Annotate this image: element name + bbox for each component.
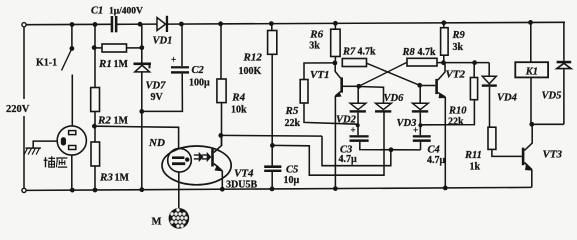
transistor VT4 emitter (214, 164, 223, 171)
svg-text:R2: R2 (97, 115, 111, 127)
node trigger (389, 147, 394, 152)
resistor R3 (91, 142, 100, 166)
wire column x95 upper (94, 24, 96, 88)
wire top rail C (168, 22, 566, 24)
switch K1-1 blade (62, 49, 72, 71)
svg-text:100μ: 100μ (189, 78, 210, 89)
wire X slant R8-VT1base (359, 62, 407, 86)
wire K1 top (530, 22, 532, 62)
wire R9 bottom (443, 55, 445, 63)
node VD2-C3 (356, 123, 360, 127)
wire right edge down (563, 22, 565, 61)
svg-text:1k: 1k (470, 162, 481, 173)
wire R6 bottom (334, 57, 336, 63)
wire R2 bottom (94, 112, 96, 143)
node R3 rail (93, 188, 98, 193)
node top x95 (93, 22, 98, 27)
wire C5 bottom (271, 172, 273, 189)
wire R10 stub top (473, 63, 475, 78)
wire R10 bottom (421, 100, 475, 125)
node top x530 (528, 20, 533, 25)
svg-text:R6: R6 (309, 28, 323, 40)
svg-text:VD1: VD1 (153, 36, 173, 47)
wire switch stub (71, 25, 73, 49)
diode VD3 (413, 103, 429, 109)
capacitor C5 (264, 165, 281, 168)
transistor VT4 collector (214, 135, 222, 152)
diode VD2 (350, 103, 366, 109)
resistor R9 (441, 28, 449, 56)
svg-text:K1-1: K1-1 (36, 58, 57, 69)
node C5 rail (270, 187, 275, 192)
node top x335 (333, 21, 338, 26)
neon lamp bulb (168, 148, 192, 172)
transistor VT1 emitter (335, 92, 340, 96)
transistor VT1 base wire (343, 85, 359, 87)
wire R5 top (304, 63, 335, 80)
svg-text:+: + (351, 125, 356, 135)
wire top rail A (26, 23, 111, 25)
svg-text:VT4: VT4 (234, 168, 254, 180)
capacitor C2 (171, 66, 189, 68)
svg-text:1M: 1M (115, 173, 130, 184)
svg-text:R9: R9 (452, 30, 466, 41)
microphone M (169, 208, 190, 229)
node VD7 rail (139, 187, 144, 192)
wire VT1 emitter down (334, 96, 336, 189)
neon electrode top (172, 156, 184, 159)
capacitor C1 (111, 16, 114, 32)
resistor R5 (300, 80, 308, 104)
wire VD2 stub (357, 86, 359, 103)
svg-text:ND: ND (148, 137, 165, 149)
node VT4 rail (220, 187, 225, 192)
wire R12 bottom (271, 54, 273, 165)
svg-text:M: M (152, 217, 162, 228)
node VT2 base (417, 83, 422, 88)
wire VD3 stub (419, 85, 421, 103)
node C5 top (270, 143, 275, 148)
wire VD7 column upper (141, 24, 143, 62)
capacitor C3 (350, 135, 369, 137)
wire VD4 stub (488, 63, 490, 77)
transistor VT3 arrow (525, 163, 532, 170)
svg-text:VD6: VD6 (384, 93, 405, 104)
socket outline (57, 126, 86, 155)
node top x220 (218, 21, 223, 26)
svg-text:R5: R5 (285, 105, 299, 117)
svg-text:K1: K1 (525, 67, 538, 78)
wire socket to rail (71, 155, 73, 190)
resistor R12 (268, 31, 277, 55)
socket slot left (61, 137, 66, 145)
svg-text:1M: 1M (114, 59, 129, 70)
node top x443 (441, 20, 446, 25)
svg-text:1M: 1M (114, 116, 129, 127)
wire netA horizontal (221, 134, 322, 137)
svg-text:220V: 220V (6, 104, 30, 115)
node top x271 (269, 21, 274, 26)
resistor R6 (331, 29, 340, 56)
wire top rail B (117, 23, 157, 25)
node R10 top (472, 60, 477, 65)
wire C2 bottom (142, 74, 183, 112)
svg-text:4.7μ: 4.7μ (339, 154, 358, 165)
resistor R11 (488, 127, 496, 149)
wire R5 to VD2-C3 junction (304, 103, 358, 124)
diode VD5 bar (557, 61, 572, 64)
resistor R1 (102, 44, 127, 52)
wire netA riser (322, 136, 391, 166)
node R2 bottom (92, 124, 97, 129)
svg-text:R1: R1 (98, 58, 112, 70)
wire VD7 column lower (141, 72, 143, 190)
ground (26, 147, 41, 149)
svg-text:10μ: 10μ (284, 175, 300, 186)
wire left vertical upper (23, 27, 25, 99)
transistor VT2 emitter (438, 93, 445, 98)
svg-text:C4: C4 (428, 145, 440, 156)
wire C2 stub top (181, 24, 183, 66)
svg-text:VD2: VD2 (336, 115, 357, 126)
wire VD4-R11 (489, 87, 491, 127)
svg-text:22k: 22k (448, 117, 464, 128)
capacitor C4 (413, 135, 431, 137)
wire C3 bottom (360, 142, 421, 150)
svg-text:22k: 22k (285, 118, 301, 129)
transistor VT2 base wire (420, 85, 436, 87)
wire VD3-C4 (419, 113, 421, 136)
wire collector line right (437, 62, 489, 64)
svg-text:VD4: VD4 (497, 93, 517, 104)
resistor R7 (342, 59, 366, 67)
svg-text:R12: R12 (243, 52, 263, 64)
resistor R4 (217, 79, 226, 103)
node K1 bottom (529, 122, 534, 127)
svg-text:3DU5B: 3DU5B (226, 180, 257, 191)
wire R4 top (220, 24, 222, 79)
svg-text:C5: C5 (286, 165, 298, 176)
svg-text:R8: R8 (402, 47, 416, 58)
node switch top (70, 46, 75, 51)
wire left vertical lower (23, 116, 25, 188)
node R1 right (139, 45, 144, 50)
wire R12 top (271, 24, 273, 31)
svg-text:R4: R4 (231, 91, 245, 103)
resistor R10 (470, 78, 477, 100)
svg-text:3k: 3k (309, 40, 320, 51)
node R1 left (92, 45, 97, 50)
transistor VT1 bar (340, 77, 343, 92)
wire R2-neon (95, 126, 179, 148)
light arrows (194, 154, 199, 156)
node top x140 (138, 22, 143, 27)
wire socket-ground (33, 141, 57, 148)
resistor R2 (91, 88, 100, 112)
svg-text:VT2: VT2 (446, 69, 466, 81)
node bottom x72 (70, 188, 75, 193)
wire R9 top (443, 23, 445, 28)
transistor VT2 arrow (439, 93, 446, 98)
wire netB (272, 112, 384, 175)
node VT1 base (356, 84, 361, 89)
node VD3-C4 (418, 123, 422, 127)
svg-text:C2: C2 (192, 65, 205, 76)
svg-text:VD5: VD5 (542, 91, 562, 102)
svg-text:R3: R3 (99, 172, 113, 184)
wire VD2-C3 (357, 113, 359, 136)
resistor R8 (407, 58, 437, 66)
node VT1 collector (333, 61, 338, 66)
terminal bottom-left (22, 188, 26, 192)
transistor VT2 collector (438, 63, 445, 80)
svg-text:VT3: VT3 (543, 149, 563, 161)
neon dot (185, 157, 189, 161)
svg-text:3k: 3k (453, 42, 464, 53)
svg-text:R10: R10 (448, 106, 467, 117)
svg-text:4.7k: 4.7k (358, 47, 377, 58)
terminal top-left (22, 23, 26, 27)
relay K1 (515, 62, 548, 77)
wire bottom rail (26, 187, 532, 190)
diode VD5 (557, 63, 571, 68)
wire C4 bottom (420, 142, 422, 150)
svg-text:R11: R11 (464, 150, 482, 161)
transistor VT1 arrow (335, 92, 342, 97)
svg-text:1μ/400V: 1μ/400V (109, 7, 143, 17)
node VD7-C2 (139, 109, 144, 114)
transistor VT3 bar (522, 148, 525, 166)
wire K1 bottom (530, 77, 532, 124)
wire X slant R7-VT2base (367, 63, 420, 85)
node top x181 (179, 22, 184, 27)
svg-text:+: + (171, 55, 176, 65)
transistor VT1 collector (335, 63, 341, 78)
diode VD4 (482, 76, 496, 84)
label socket (插座) (45, 157, 47, 167)
transistor VT2 bar (435, 79, 438, 94)
wire VT4 emitter down (221, 171, 223, 189)
neon electrode bottom (172, 162, 185, 165)
wire R6 top (334, 23, 336, 29)
svg-text:VT1: VT1 (310, 69, 330, 81)
svg-text:VD7: VD7 (146, 81, 167, 92)
node VT1 rail (333, 186, 338, 191)
wire VT2 emitter down (444, 97, 446, 188)
svg-text:+: + (413, 125, 418, 135)
node VT2 collector (441, 60, 446, 65)
wire VD5 down (563, 69, 565, 125)
svg-text:9V: 9V (151, 92, 164, 103)
transistor VT3 collector (524, 124, 532, 150)
wire base ext to VD6 (359, 87, 384, 104)
transistor VT3 emitter (524, 163, 531, 170)
svg-text:R7: R7 (342, 47, 356, 58)
optocoupler ND outline (162, 146, 231, 185)
svg-text:10k: 10k (231, 105, 247, 116)
node R4 bottom (218, 133, 223, 138)
wire R4 bottom (221, 103, 223, 146)
wire R3 bottom (94, 166, 96, 190)
wire switch to socket (71, 75, 73, 127)
transistor VT4 bar (211, 149, 214, 167)
svg-text:4.7μ: 4.7μ (427, 155, 446, 166)
node VT2 rail (443, 186, 448, 191)
transistor VT4 arrow (215, 165, 223, 171)
socket slot bottom (69, 146, 76, 150)
wire VD5 to K1 bottom (532, 123, 564, 125)
svg-text:100K: 100K (239, 66, 262, 77)
svg-text:C1: C1 (91, 6, 103, 17)
zener VD7 (134, 63, 152, 66)
wire R11 bottom (492, 149, 522, 156)
diode VD6 (376, 103, 392, 109)
svg-text:4.7k: 4.7k (418, 47, 437, 58)
socket slot top (69, 131, 76, 135)
wire neon to M (178, 172, 180, 208)
diode VD1 (157, 18, 166, 31)
wire VT3 emitter down (531, 170, 533, 188)
node top x72 (70, 22, 75, 27)
